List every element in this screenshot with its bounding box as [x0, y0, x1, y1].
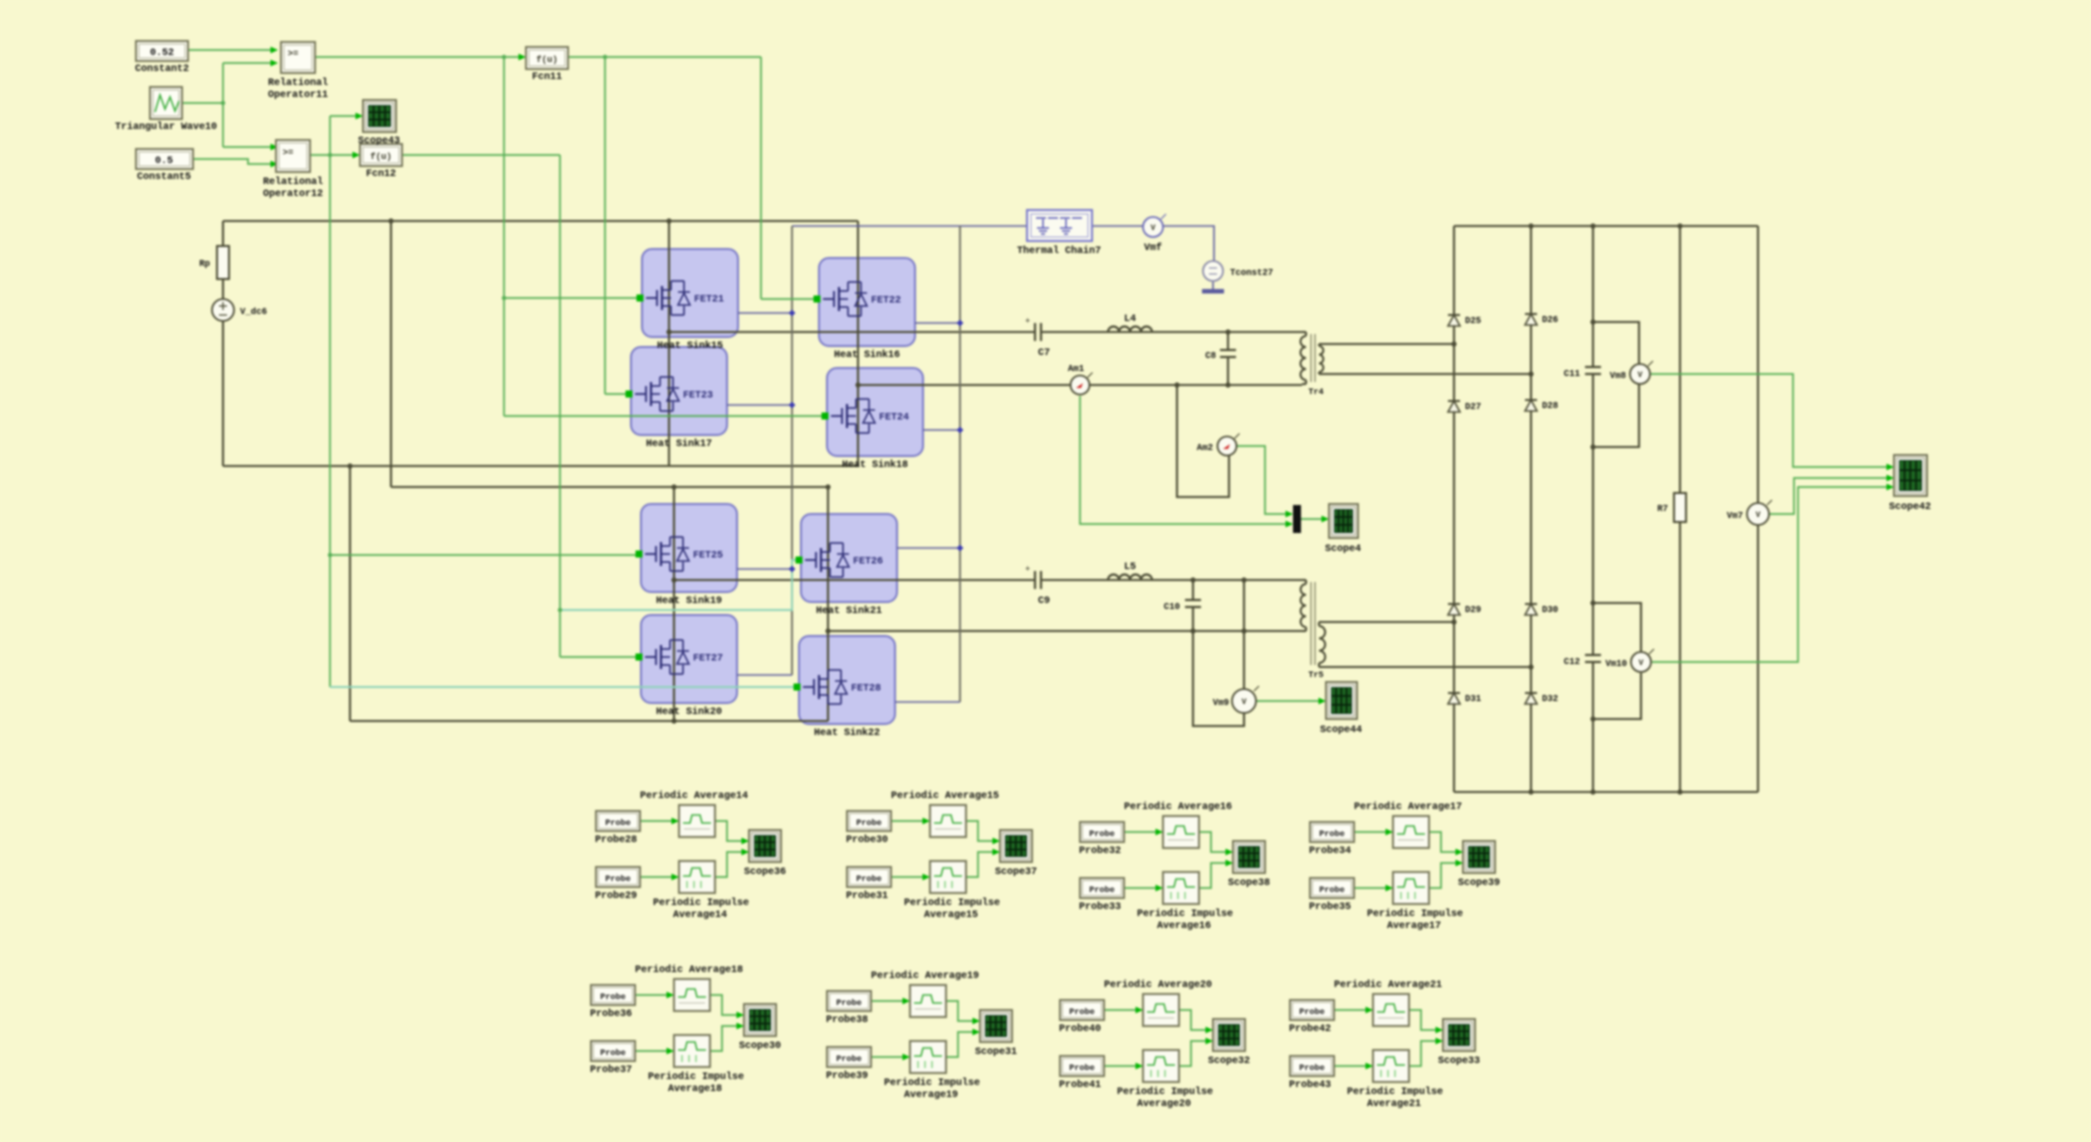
node DC+ junction x669	[666, 218, 671, 223]
wire FET21 thermal stub	[738, 312, 792, 314]
svg-text:D26: D26	[1542, 315, 1558, 325]
block Periodic Average15	[930, 805, 966, 837]
svg-text:Vm9: Vm9	[1213, 698, 1229, 708]
svg-text:Scope4: Scope4	[1325, 544, 1361, 555]
wire Periodic Average20 to Scope in1	[1179, 1010, 1209, 1030]
pin arrows Scope38 group	[1156, 829, 1164, 836]
svg-text:Scope32: Scope32	[1208, 1056, 1250, 1067]
block Periodic Average18	[674, 979, 710, 1011]
resistor R7	[1674, 493, 1686, 522]
symbol FET28	[803, 686, 814, 688]
wire Fcn11 out (y=57)	[568, 56, 761, 58]
svg-text:Scope43: Scope43	[358, 136, 400, 147]
svg-text:Vm10: Vm10	[1605, 659, 1627, 669]
svg-text:Constant5: Constant5	[137, 172, 191, 183]
capacitor C9	[1034, 571, 1036, 589]
wire Probe41 to Periodic Impulse Average20	[1104, 1065, 1139, 1067]
svg-text:+: +	[1025, 317, 1030, 326]
probe Probe28	[596, 811, 640, 831]
svg-text:FET27: FET27	[693, 654, 723, 665]
wire Probe36 to Periodic Average18	[635, 994, 670, 996]
wire Vm10 to Scope42 in3	[1652, 487, 1889, 662]
pin arrows Scope33 group	[1366, 1007, 1374, 1014]
svg-text:C8: C8	[1205, 351, 1216, 361]
probe Probe35	[1310, 878, 1354, 898]
svg-text:V: V	[1639, 659, 1644, 668]
svg-text:Probe43: Probe43	[1289, 1079, 1331, 1091]
transistor FET26 body	[801, 514, 897, 602]
svg-text:Periodic Average18: Periodic Average18	[635, 964, 743, 976]
block Periodic Impulse Average17	[1393, 872, 1429, 904]
pin arrow Fcn12 input	[353, 152, 361, 159]
svg-text:Scope44: Scope44	[1320, 725, 1362, 736]
scope Scope33	[1443, 1019, 1475, 1051]
svg-text:FET28: FET28	[851, 684, 881, 695]
wire upper output B (y=385) through Am1	[858, 384, 1070, 386]
svg-text:Periodic Average17: Periodic Average17	[1354, 801, 1462, 813]
wire Fcn12 out (y=155)	[402, 154, 560, 156]
svg-text:Probe34: Probe34	[1309, 845, 1351, 857]
resistor Rp	[217, 246, 229, 279]
svg-text:FET26: FET26	[853, 557, 883, 568]
svg-text:C10: C10	[1164, 602, 1180, 612]
node rectifier top rail junctions	[1528, 223, 1533, 228]
scope Scope30	[744, 1004, 776, 1036]
wire Probe43 to Periodic Impulse Average21	[1334, 1065, 1369, 1067]
wire FET28 thermal stub	[895, 701, 960, 703]
svg-text:Probe42: Probe42	[1289, 1023, 1331, 1035]
svg-text:Constant2: Constant2	[135, 64, 189, 75]
wire Periodic Average14 to Scope in1	[715, 821, 745, 841]
svg-text:Heat Sink15: Heat Sink15	[657, 340, 723, 352]
wire Triangular Wave10 output	[182, 102, 223, 104]
block Periodic Impulse Average20	[1143, 1050, 1179, 1082]
wire Probe34 to Periodic Average17	[1354, 831, 1389, 833]
wire Tr5 secondary top (y=622)	[1322, 621, 1454, 623]
svg-text:Probe29: Probe29	[595, 890, 637, 902]
scope Scope43	[363, 100, 396, 132]
svg-text:f(u): f(u)	[370, 152, 392, 162]
transistor FET27 body	[641, 615, 737, 703]
wire Probe28 to Periodic Average14	[640, 820, 675, 822]
transistor FET21 body	[642, 249, 738, 337]
transformer Tr4	[1302, 331, 1306, 333]
pin arrows mux inputs	[1286, 511, 1294, 518]
wire gate FET22 (y=299)	[761, 298, 814, 300]
wire diode column D25/D27/D29/D31 (x=1454)	[1453, 226, 1455, 792]
voltmeter Vm7	[1747, 503, 1769, 525]
svg-text:f(u): f(u)	[536, 55, 558, 65]
svg-text:>=: >=	[288, 49, 299, 59]
svg-text:Thermal Chain7: Thermal Chain7	[1017, 245, 1101, 257]
diode D28	[1525, 399, 1537, 401]
symbol FET26	[805, 559, 816, 561]
capacitor C11	[1585, 366, 1601, 368]
transistor FET22 body	[819, 258, 915, 346]
svg-text:Rp: Rp	[199, 259, 210, 269]
transistor FET23 body	[631, 347, 727, 435]
wire DC- rail lower bridge (y=721)	[350, 720, 828, 722]
svg-text:Scope30: Scope30	[739, 1041, 781, 1052]
svg-text:Average16: Average16	[1157, 921, 1211, 932]
wire Periodic Average21 to Scope in1	[1409, 1010, 1439, 1030]
block Periodic Average16	[1163, 816, 1199, 848]
svg-text:Average19: Average19	[904, 1090, 958, 1101]
svg-text:V: V	[1756, 511, 1761, 520]
scope Scope42	[1894, 455, 1927, 496]
symbol FET23	[635, 393, 646, 395]
svg-text:Probe: Probe	[605, 874, 631, 884]
svg-text:Probe: Probe	[1299, 1063, 1325, 1073]
scope Scope39	[1463, 841, 1495, 873]
wire thermal bus right (x=960)	[959, 226, 961, 702]
wire Probe35 to Periodic Impulse Average17	[1354, 887, 1389, 889]
svg-text:Heat Sink16: Heat Sink16	[834, 349, 900, 361]
wire Probe30 to Periodic Average15	[891, 820, 926, 822]
node triangle wave junction	[221, 101, 225, 105]
svg-text:Probe: Probe	[1299, 1007, 1325, 1017]
pin arrow Scope43 input	[356, 113, 364, 120]
wire DC+ top rail	[223, 220, 858, 222]
node lower DC- junction	[671, 718, 676, 723]
node lower left leg output tap	[671, 577, 676, 582]
svg-text:Average15: Average15	[924, 910, 978, 921]
comparator Relational Operator11	[281, 42, 315, 73]
svg-text:D31: D31	[1465, 694, 1482, 704]
capacitor C7	[1034, 323, 1036, 341]
svg-text:Probe38: Probe38	[826, 1014, 868, 1026]
block Periodic Impulse Average19	[910, 1041, 946, 1073]
wire to Relational Operator12 in1	[223, 146, 272, 148]
svg-text:C11: C11	[1564, 369, 1581, 379]
svg-text:Probe: Probe	[856, 874, 882, 884]
wire Periodic Impulse Average19 to Scope in2	[946, 1032, 976, 1057]
wire Constant2 to Relational Operator11 in1	[188, 49, 272, 51]
wire C8 shunt branch (x=1228)	[1227, 332, 1229, 350]
wire lower bridge left leg (x=674)	[673, 487, 675, 721]
svg-text:D25: D25	[1465, 316, 1481, 326]
node Am2 branch	[1174, 382, 1179, 387]
svg-text:Periodic Impulse: Periodic Impulse	[1137, 908, 1233, 920]
node Vm10 loop taps	[1590, 600, 1595, 605]
probe Probe41	[1060, 1056, 1104, 1076]
wire Periodic Average15 to Scope in1	[966, 821, 996, 841]
svg-text:Vm8: Vm8	[1610, 371, 1626, 381]
pin arrows Scope31 group	[903, 998, 911, 1005]
svg-text:0.52: 0.52	[150, 48, 174, 59]
transformer Tr5	[1302, 579, 1306, 581]
svg-text:FET25: FET25	[693, 551, 723, 562]
wire rail with Vm7 (x=1758)	[1757, 226, 1759, 504]
probe Probe39	[827, 1047, 871, 1067]
voltmeter Vm8	[1630, 364, 1650, 384]
inductor L4	[1108, 327, 1152, 332]
block Periodic Average19	[910, 985, 946, 1017]
probe Probe29	[596, 867, 640, 887]
wire Constant5 to Relational Operator12 in2	[193, 159, 272, 164]
svg-text:Vmf: Vmf	[1144, 242, 1162, 254]
svg-text:Probe: Probe	[1089, 829, 1115, 839]
wire gate FET23 (y=394)	[605, 393, 626, 395]
svg-text:Average18: Average18	[668, 1084, 722, 1095]
block Periodic Average21	[1373, 994, 1409, 1026]
probe Probe42	[1290, 1000, 1334, 1020]
svg-text:Periodic Impulse: Periodic Impulse	[1347, 1086, 1443, 1098]
node lower right leg output tap	[825, 628, 830, 633]
wire gate FET28 (y=687)	[330, 686, 794, 688]
svg-text:D32: D32	[1542, 694, 1558, 704]
wire to Relational Operator11 in2	[223, 62, 272, 64]
svg-text:Probe40: Probe40	[1059, 1023, 1101, 1035]
wire filter rail with C11/C12 (x=1593)	[1592, 226, 1594, 367]
pin arrows Scope36 group	[672, 818, 680, 825]
pin arrows Scope42 inputs	[1887, 464, 1895, 471]
block Periodic Average14	[679, 805, 715, 837]
svg-text:Operator12: Operator12	[263, 189, 323, 200]
node gate bus taps (green)	[502, 55, 506, 59]
diode D26	[1525, 313, 1537, 315]
svg-text:FET22: FET22	[871, 296, 901, 307]
wire Probe40 to Periodic Average20	[1104, 1009, 1139, 1011]
diode D32	[1525, 692, 1537, 694]
svg-text:Probe: Probe	[1089, 885, 1115, 895]
wire triangle bus (x=223)	[222, 63, 224, 147]
svg-text:Tconst27: Tconst27	[1230, 268, 1273, 278]
wire Am2 to mux	[1237, 446, 1288, 514]
pin arrow Fcn11 input	[519, 54, 527, 61]
transistor FET25 body	[641, 504, 737, 592]
function Fcn11	[526, 47, 568, 69]
scope Scope37	[1000, 830, 1032, 862]
symbol FET24	[831, 415, 842, 417]
inductor L5	[1108, 575, 1152, 580]
wire diode column D26/D28/D30/D32 (x=1531)	[1530, 226, 1532, 792]
node lower DC+ junctions	[671, 484, 676, 489]
wire Periodic Impulse Average16 to Scope in2	[1199, 863, 1229, 888]
svg-text:Relational: Relational	[263, 176, 323, 188]
wire gate FET26 (y=610 jog)	[560, 560, 796, 610]
wire DC+ rail lower bridge (y=487)	[391, 486, 828, 488]
probe Probe36	[591, 985, 635, 1005]
svg-text:Heat Sink17: Heat Sink17	[646, 438, 712, 450]
wire gate bus FET26/FET27 (x=560)	[559, 155, 561, 657]
svg-text:Periodic Average20: Periodic Average20	[1104, 979, 1212, 991]
diode D25	[1448, 314, 1460, 316]
svg-text:Probe: Probe	[836, 998, 862, 1008]
probe Probe34	[1310, 822, 1354, 842]
constant Constant5 (0.5)	[136, 149, 193, 169]
svg-text:Periodic Average15: Periodic Average15	[891, 790, 999, 802]
svg-text:Scope37: Scope37	[995, 867, 1037, 878]
wire DC- drop (x=350)	[349, 466, 351, 721]
wire gate FET24 (y=416)	[504, 415, 822, 417]
wire Probe31 to Periodic Impulse Average15	[891, 876, 926, 878]
ammeter Am2	[1218, 437, 1237, 456]
wire Periodic Average16 to Scope in1	[1199, 832, 1229, 852]
svg-text:Periodic Impulse: Periodic Impulse	[1367, 908, 1463, 920]
probe Probe32	[1080, 822, 1124, 842]
wire gate bus FET25/FET28 (x=330)	[329, 116, 331, 687]
svg-text:L5: L5	[1124, 562, 1136, 573]
svg-text:Probe: Probe	[856, 818, 882, 828]
svg-text:Periodic Average19: Periodic Average19	[871, 970, 979, 982]
wire Probe39 to Periodic Impulse Average19	[871, 1056, 906, 1058]
svg-text:Triangular Wave10: Triangular Wave10	[115, 121, 217, 133]
pin arrows Scope30 group	[667, 992, 675, 999]
wire Probe37 to Periodic Impulse Average18	[635, 1050, 670, 1052]
block Periodic Average20	[1143, 994, 1179, 1026]
transistor FET28 body	[799, 636, 895, 724]
svg-text:FET24: FET24	[879, 413, 909, 424]
thermal chain block Thermal Chain7	[1027, 210, 1092, 241]
pin arrow Scope44 input	[1319, 698, 1327, 705]
svg-text:+: +	[1025, 565, 1030, 574]
source V_dc6	[212, 299, 234, 321]
wire Scope43 input	[330, 115, 358, 117]
symbol FET25	[645, 553, 656, 555]
svg-text:Probe: Probe	[1319, 829, 1345, 839]
svg-text:Tr4: Tr4	[1308, 387, 1323, 397]
probe Probe40	[1060, 1000, 1104, 1020]
wire FET25 thermal stub	[737, 568, 792, 570]
voltmeter Vm9	[1232, 689, 1256, 713]
wire Periodic Impulse Average17 to Scope in2	[1429, 863, 1459, 888]
probe Probe30	[847, 811, 891, 831]
svg-text:D28: D28	[1542, 401, 1558, 411]
svg-text:Periodic Impulse: Periodic Impulse	[648, 1071, 744, 1083]
probe Probe33	[1080, 878, 1124, 898]
svg-text:V: V	[1638, 371, 1643, 380]
node Vm8 loop taps	[1590, 319, 1595, 324]
voltmeter Vm10	[1631, 652, 1651, 672]
svg-text:Average17: Average17	[1387, 921, 1441, 932]
node C8 taps	[1225, 329, 1230, 334]
wire Tr4 secondary bottom (y=374)	[1322, 373, 1531, 375]
block Periodic Impulse Average21	[1373, 1050, 1409, 1082]
wire Probe33 to Periodic Impulse Average16	[1124, 887, 1159, 889]
capacitor C10	[1185, 599, 1201, 601]
wire FET24 thermal stub	[923, 429, 960, 431]
scope Scope38	[1233, 841, 1265, 873]
svg-text:Probe32: Probe32	[1079, 845, 1121, 857]
probe Probe37	[591, 1041, 635, 1061]
svg-text:Scope31: Scope31	[975, 1047, 1017, 1058]
diode D30	[1525, 603, 1537, 605]
diode D31	[1448, 692, 1460, 694]
svg-text:Periodic Impulse: Periodic Impulse	[884, 1077, 980, 1089]
wire Vm9 return loop	[1193, 631, 1244, 726]
svg-text:Scope33: Scope33	[1438, 1056, 1480, 1067]
wire load rail with R7 (x=1680)	[1679, 226, 1681, 493]
node upper right leg output tap	[855, 382, 860, 387]
scope Scope31	[980, 1010, 1012, 1042]
node C10 taps	[1190, 577, 1195, 582]
svg-text:Periodic Average14: Periodic Average14	[640, 790, 748, 802]
wire mux to Scope4	[1301, 518, 1324, 520]
svg-text:Probe: Probe	[605, 818, 631, 828]
svg-text:Average14: Average14	[673, 910, 727, 921]
svg-text:Probe: Probe	[836, 1054, 862, 1064]
wire C10 shunt branch (x=1193)	[1192, 580, 1194, 600]
probe Probe38	[827, 991, 871, 1011]
wire lower output A (y=580) to C9/L5	[674, 579, 1035, 581]
svg-text:Am1: Am1	[1068, 364, 1085, 374]
symbol FET27	[645, 656, 656, 658]
svg-text:FET23: FET23	[683, 391, 713, 402]
wire Vm7 to Scope42 in2	[1769, 478, 1889, 514]
wire FET23 thermal stub	[727, 404, 792, 406]
svg-text:Average20: Average20	[1137, 1099, 1191, 1110]
wire gate bus FET21/FET24 (x=504)	[503, 57, 505, 416]
wire FET26 thermal stub	[897, 547, 960, 549]
pin arrows Scope37 group	[923, 818, 931, 825]
svg-text:D27: D27	[1465, 402, 1481, 412]
capacitor C8	[1220, 349, 1236, 351]
block Periodic Impulse Average15	[930, 861, 966, 893]
svg-text:L4: L4	[1124, 314, 1136, 325]
wire FET27 thermal stub	[737, 674, 792, 676]
wire Relational Operator11 out to Fcn11	[315, 56, 522, 58]
block Periodic Impulse Average18	[674, 1035, 710, 1067]
wire gate FET21 (y=298)	[504, 297, 637, 299]
svg-text:Heat Sink22: Heat Sink22	[814, 727, 880, 739]
voltmeter Vmf (thermal)	[1143, 217, 1163, 237]
svg-text:Average21: Average21	[1367, 1099, 1421, 1110]
svg-text:Vm7: Vm7	[1727, 511, 1743, 521]
svg-text:Periodic Impulse: Periodic Impulse	[1117, 1086, 1213, 1098]
wire Am2 measurement loop	[1177, 385, 1229, 497]
wire gate bus FET23 (x=605)	[604, 57, 606, 394]
svg-text:Probe: Probe	[600, 992, 626, 1002]
probe Probe31	[847, 867, 891, 887]
svg-text:Operator11: Operator11	[268, 90, 328, 101]
capacitor C12	[1585, 654, 1601, 656]
ground (thermal reference at Tconst27)	[1212, 282, 1214, 289]
function Fcn12	[360, 144, 402, 166]
wire rectifier bottom rail (y=792)	[1454, 791, 1758, 793]
svg-text:FET21: FET21	[694, 295, 724, 306]
svg-text:Fcn11: Fcn11	[532, 72, 562, 83]
svg-text:Am2: Am2	[1197, 443, 1213, 453]
svg-text:D30: D30	[1542, 605, 1558, 615]
constant Constant2 (0.52)	[136, 41, 188, 61]
svg-text:V_dc6: V_dc6	[240, 307, 267, 317]
wire Periodic Impulse Average20 to Scope in2	[1179, 1041, 1209, 1066]
svg-text:C7: C7	[1038, 348, 1050, 359]
svg-text:Probe31: Probe31	[846, 890, 888, 902]
svg-text:Probe28: Probe28	[595, 834, 637, 846]
svg-text:Probe33: Probe33	[1079, 901, 1121, 913]
node Vm9 taps	[1241, 577, 1246, 582]
wire Periodic Impulse Average18 to Scope in2	[710, 1026, 740, 1051]
wire Periodic Average19 to Scope in1	[946, 1001, 976, 1021]
wire Probe32 to Periodic Average16	[1124, 831, 1159, 833]
mux before Scope4	[1293, 505, 1301, 533]
svg-text:Probe37: Probe37	[590, 1064, 632, 1076]
wire Periodic Average17 to Scope in1	[1429, 832, 1459, 852]
wire Vm8 to Scope42 in1	[1650, 374, 1889, 467]
comparator Relational Operator12	[276, 140, 310, 172]
svg-text:Scope42: Scope42	[1889, 502, 1931, 513]
svg-text:0.5: 0.5	[155, 156, 173, 167]
wire DC+ drop to lower bridge (x=391)	[390, 221, 392, 487]
transistor FET24 body	[827, 368, 923, 456]
wire upper bridge right leg (x=858)	[857, 221, 859, 466]
source Triangular Wave10	[150, 87, 182, 119]
svg-text:Probe30: Probe30	[846, 834, 888, 846]
pin arrow Scope4 input	[1322, 516, 1330, 523]
node rectifier bottom rail junctions	[1528, 789, 1533, 794]
